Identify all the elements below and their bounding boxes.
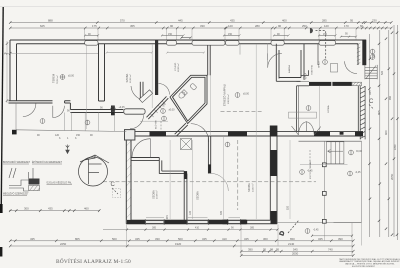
- svg-text:390: 390: [248, 248, 253, 252]
- scan bottom-left blob: [0, 247, 2, 257]
- svg-text:SPÁJZ: SPÁJZ: [317, 61, 320, 68]
- window B slab (x166.5-176.5): [167, 41, 177, 46]
- svg-text:90: 90: [170, 24, 174, 28]
- svg-text:230: 230: [372, 19, 377, 23]
- svg-text:120: 120: [228, 24, 233, 28]
- right wall inner face: [357, 44, 359, 65]
- svg-text:625: 625: [40, 24, 45, 28]
- svg-text:345: 345: [166, 215, 169, 220]
- svg-text:KAMRA: KAMRA: [288, 65, 291, 73]
- terrace stairs (vertical steps): [327, 142, 344, 164]
- room A inner ceiling line: [17, 52, 99, 54]
- porch left vertical: [15, 103, 17, 130]
- bath pentagon inner: [173, 77, 206, 121]
- terrace pillar line: [324, 141, 326, 221]
- svg-text:EGYEZTETÉS SZERINT: EGYEZTETÉS SZERINT: [352, 265, 376, 268]
- bath pentagon outer: [170, 75, 207, 123]
- svg-text:330: 330: [155, 237, 160, 241]
- porch wall down: [69, 103, 71, 110]
- room A bottom wall inner: [9, 102, 53, 104]
- divider wall between room rows: [126, 132, 363, 136]
- svg-text:330: 330: [200, 24, 205, 28]
- scattered small dimension texts: [37, 33, 397, 232]
- szoba level marker: [306, 106, 311, 111]
- room B interior dim line: [106, 52, 153, 54]
- top dim numbers: [40, 19, 377, 29]
- svg-text:385: 385: [152, 227, 157, 230]
- kitchen door arc: [345, 61, 357, 73]
- svg-text:SZOBA: SZOBA: [247, 183, 251, 192]
- svg-text:SZOBA: SZOBA: [327, 105, 330, 113]
- top dimension line 1: [10, 22, 391, 24]
- svg-text:150: 150: [228, 33, 233, 36]
- svg-text:98: 98: [270, 248, 274, 252]
- hatch ticks beside corner band: [357, 43, 361, 65]
- svg-text:2050: 2050: [292, 252, 299, 256]
- spajz partition: [317, 44, 319, 65]
- svg-text:BŐVÍTÉSI ALAPRAJZ M-1:50: BŐVÍTÉSI ALAPRAJZ M-1:50: [56, 257, 131, 265]
- hall left wall piece: [140, 82, 143, 100]
- window C slab (x225.5-239): [226, 41, 240, 46]
- terrace interior thin line: [300, 164, 348, 166]
- legend hatched block: [29, 179, 40, 191]
- partition right room (x270-277): [270, 136, 277, 224]
- svg-text:390: 390: [338, 237, 343, 241]
- diagonal lower wall: [177, 125, 188, 136]
- gable lines: [80, 155, 109, 163]
- svg-text:MEGLÉVŐ SZERKEZET: MEGLÉVŐ SZERKEZET: [3, 193, 29, 196]
- window bottom 3: [228, 219, 241, 225]
- marker C left: [111, 182, 121, 198]
- svg-text:+0,45: +0,45: [119, 106, 126, 109]
- svg-text:150: 150: [76, 134, 81, 137]
- svg-text:95: 95: [276, 248, 280, 252]
- porch dim drop lines: [64, 113, 114, 132]
- room A door arc: [23, 104, 36, 117]
- tiny axis letters: [59, 136, 77, 140]
- tilted door leaf: [139, 90, 152, 103]
- svg-text:SZOBA: SZOBA: [196, 191, 200, 200]
- svg-text:1920: 1920: [175, 242, 182, 246]
- top inner wall line: [17, 43, 359, 45]
- right wall hatched band below kitchen: [360, 86, 365, 139]
- tick marks on top dim lines: [9, 21, 393, 29]
- svg-text:175: 175: [92, 24, 97, 28]
- svg-text:650: 650: [290, 237, 295, 241]
- room B jamb extension line: [151, 44, 153, 108]
- left outer wall: [9, 40, 11, 101]
- svg-text:410: 410: [195, 227, 200, 230]
- dark pier right of window 3: [240, 220, 246, 225]
- svg-text:2140: 2140: [288, 242, 295, 246]
- svg-text:740: 740: [328, 248, 333, 252]
- svg-text:150: 150: [168, 33, 173, 36]
- divider dark segment 1: [150, 131, 167, 136]
- entry door arc: [130, 115, 144, 129]
- svg-text:345: 345: [373, 53, 376, 58]
- hall thin line: [140, 120, 168, 122]
- svg-text:360: 360: [263, 237, 268, 241]
- thin vertical right of szoba: [319, 86, 321, 132]
- entry step slab: [124, 109, 145, 114]
- svg-text:520: 520: [287, 205, 290, 210]
- svg-text:285: 285: [322, 19, 327, 23]
- svg-text:TEREM: TEREM: [52, 74, 56, 83]
- svg-text:BONTANDÓ SZERKEZET: BONTANDÓ SZERKEZET: [3, 161, 31, 164]
- svg-text:ELŐTÉR: ELŐTÉR: [155, 120, 158, 129]
- porch edge line: [16, 130, 126, 132]
- room A bottom wall outer: [9, 100, 53, 102]
- svg-text:C: C: [369, 99, 374, 105]
- scan top edge: [0, 6, 400, 8]
- entry wall lower: [70, 112, 123, 114]
- svg-text:345: 345: [368, 90, 372, 95]
- svg-text:250: 250: [302, 24, 307, 28]
- svg-text:90: 90: [278, 24, 282, 28]
- window bottom 2: [187, 219, 208, 225]
- short dashed vertical below hall markers: [160, 121, 162, 130]
- svg-text:805: 805: [377, 110, 381, 115]
- svg-text:2050: 2050: [390, 173, 394, 180]
- svg-text:455: 455: [130, 24, 135, 28]
- svg-text:345: 345: [220, 210, 223, 215]
- room A second door leaf: [52, 106, 54, 118]
- window jamb extension lines: [85, 29, 356, 40]
- ticks on bottom dim lines: [9, 209, 355, 257]
- partition bottom rooms 1/2 (x184-187): [184, 171, 187, 220]
- thin verticals near living room top: [239, 44, 241, 55]
- window sill lines above bottom windows: [146, 217, 240, 219]
- svg-text:120: 120: [55, 134, 60, 137]
- svg-text:95: 95: [350, 19, 354, 23]
- svg-text:410: 410: [222, 237, 227, 241]
- marker D bottom: [279, 220, 299, 237]
- bottom-left room block left wall: [126, 132, 131, 224]
- door leaf + arc corridor (hinged at 150.5,157.2): [150, 139, 152, 158]
- svg-text:108,00 m²: 108,00 m²: [227, 94, 230, 104]
- scan left edge blob: [0, 204, 3, 213]
- svg-text:520: 520: [381, 70, 384, 75]
- section line D vertical: [237, 140, 239, 210]
- section line C horizontal: [103, 181, 316, 183]
- right szoba left wall: [296, 86, 298, 132]
- stairs top-right: [365, 65, 377, 79]
- svg-text:SZOBA: SZOBA: [152, 190, 156, 199]
- window D slab (x271-284): [271, 41, 284, 46]
- dark segment on partition 2/3: [208, 164, 211, 173]
- porch pillar: [12, 130, 17, 135]
- svg-text:445: 445: [178, 19, 183, 23]
- right margin ticks + numbers: [368, 32, 398, 237]
- svg-text:345: 345: [318, 237, 323, 241]
- svg-text:500: 500: [178, 237, 183, 241]
- svg-text:888: 888: [48, 19, 53, 23]
- svg-text:STUDIÓ: STUDIÓ: [174, 62, 177, 71]
- entry wall upper: [70, 109, 123, 111]
- long window slab (x192-225): [192, 41, 225, 46]
- svg-text:805: 805: [75, 237, 80, 241]
- diagonal hall wall: [148, 98, 168, 119]
- partition A/B right face: [104, 44, 106, 101]
- svg-text:±0,00: ±0,00: [356, 150, 363, 153]
- svg-text:±0,00: ±0,00: [243, 93, 250, 96]
- living room left wall: [208, 45, 211, 75]
- small vertical jog: [158, 158, 160, 174]
- right margin dimension verticals: [370, 25, 398, 240]
- dim line under bottom wall: [103, 229, 278, 231]
- svg-text:95: 95: [263, 248, 267, 252]
- kitchen fixtures: [289, 64, 338, 119]
- svg-text:170: 170: [344, 24, 349, 28]
- svg-text:345: 345: [135, 237, 140, 241]
- svg-text:435: 435: [48, 207, 53, 211]
- window dim ticks above windows: [84, 34, 337, 36]
- bottom wall: [126, 220, 277, 224]
- marker D top: [310, 28, 325, 58]
- entry dark pier on wall: [111, 106, 115, 116]
- kamra door arc: [268, 53, 282, 67]
- left outside dim vertical: [6, 41, 8, 103]
- short dim line right: [312, 235, 352, 237]
- terrace bottom tick end: [334, 222, 362, 224]
- interior wall: corridor top (bottom-left block): [131, 158, 184, 174]
- svg-text:-0,45: -0,45: [355, 171, 361, 174]
- bottom dimension line 1: [10, 240, 353, 242]
- dark pier left of window 3: [223, 220, 229, 225]
- dark junction at divider: [270, 126, 278, 137]
- svg-text:78,56 m²: 78,56 m²: [56, 75, 59, 84]
- partition bottom tie: [99, 100, 105, 102]
- window room A top (x85-106): [85, 41, 98, 46]
- divider dark segment 2: [228, 131, 247, 136]
- top-right dark hatched corner wall: [362, 40, 366, 65]
- kitchen bottom dark wall band: [309, 82, 331, 86]
- bottom dimension line 4: [241, 255, 353, 257]
- svg-text:18,68 m²: 18,68 m²: [177, 63, 180, 72]
- dark segment on partition 1/2: [184, 171, 187, 179]
- partition A/B left face: [98, 44, 100, 101]
- svg-text:280: 280: [255, 24, 260, 28]
- window bottom 1: [145, 219, 164, 225]
- north arrow: [66, 145, 70, 154]
- corridor lower wall: [162, 170, 184, 172]
- wall room B right (dark double): [155, 40, 158, 95]
- svg-text:500: 500: [112, 237, 117, 241]
- french doors fan: [292, 122, 321, 135]
- kitchen level marker: [323, 60, 328, 65]
- rungs on hall diagonal: [150, 101, 165, 117]
- hall door arc left: [131, 86, 144, 100]
- top dimension line 2: [10, 27, 391, 29]
- partition rooms 2/3 (x208-211): [208, 136, 210, 173]
- terrace top wall thin: [299, 140, 362, 142]
- bottom dimension line left: [9, 210, 100, 212]
- svg-text:10,08 m²: 10,08 m²: [156, 190, 159, 199]
- legend drawing: [9, 168, 33, 191]
- svg-text:345: 345: [202, 237, 207, 241]
- svg-text:435: 435: [30, 237, 35, 241]
- window E slab (x319-335.5): [319, 41, 336, 46]
- bottom dimension line 2: [10, 245, 353, 247]
- svg-text:460: 460: [84, 207, 89, 211]
- divider dark segment 4: [355, 131, 363, 136]
- door arc bottom-right of pentagon: [191, 124, 209, 142]
- svg-text:345: 345: [244, 237, 249, 241]
- svg-text:960: 960: [389, 95, 392, 100]
- short dashed vertical in terrace: [309, 150, 311, 164]
- row 1: [9, 239, 12, 242]
- hall door arc (from dark wall B): [159, 84, 170, 95]
- svg-text:300: 300: [24, 207, 29, 211]
- svg-text:±0,00: ±0,00: [169, 109, 176, 112]
- marker C right: [369, 99, 374, 110]
- svg-text:14,50 m²: 14,50 m²: [252, 183, 255, 192]
- pillar squares: [322, 163, 326, 167]
- kamra walls: [276, 44, 304, 82]
- svg-text:ÉPÍTENDŐ FALSZERKEZET: ÉPÍTENDŐ FALSZERKEZET: [32, 161, 63, 164]
- bottom-right text block: [339, 258, 400, 268]
- svg-text:ÚJOLAG KÉSZÜLŐ FAL: ÚJOLAG KÉSZÜLŐ FAL: [47, 182, 73, 185]
- svg-text:C: C: [111, 182, 116, 188]
- svg-text:120: 120: [189, 210, 192, 215]
- row 2: [9, 245, 12, 248]
- svg-text:570: 570: [120, 19, 125, 23]
- svg-text:16,96 m²: 16,96 m²: [129, 74, 132, 83]
- interior thin dim verticals bottom rooms: [170, 44, 290, 219]
- bath fixtures: sink: [190, 83, 197, 90]
- dark segment on right partition: [270, 150, 277, 176]
- top-right window dim ticks: [340, 36, 357, 38]
- svg-text:-0,45: -0,45: [313, 229, 319, 232]
- pier ticks between slabs: [181, 37, 192, 39]
- svg-text:2250: 2250: [394, 144, 397, 150]
- row 3: [240, 250, 243, 253]
- svg-text:120: 120: [324, 24, 329, 28]
- bottom wall dark segments: [127, 220, 146, 224]
- svg-text:435: 435: [230, 19, 235, 23]
- studio interior dim line: [166, 52, 205, 54]
- svg-text:150: 150: [323, 33, 328, 36]
- scan left edge line: [1, 7, 3, 212]
- kamra bottom-right jog: [301, 70, 309, 75]
- right szoba top wall thin extension: [297, 85, 309, 87]
- bottom dim numbers: [24, 207, 343, 256]
- top outer wall: [10, 39, 366, 41]
- bottom dimension line 3: [241, 250, 353, 252]
- svg-text:60: 60: [360, 24, 364, 28]
- row 4: [240, 254, 243, 257]
- room A second door arc: [53, 106, 65, 118]
- small dark tick on divider: [340, 132, 344, 135]
- dashed in living room: [221, 110, 262, 112]
- step corner at porch: [65, 101, 71, 103]
- interior sketch: [88, 159, 90, 184]
- svg-text:2250: 2250: [60, 242, 67, 246]
- terrace bottom edge: [277, 222, 361, 224]
- svg-text:±0,00: ±0,00: [68, 75, 75, 78]
- bath fixtures: toilet: [178, 89, 188, 99]
- svg-text:SZOBA: SZOBA: [125, 73, 129, 82]
- svg-text:960: 960: [384, 130, 388, 135]
- svg-text:KONYHA: KONYHA: [310, 65, 313, 75]
- divider dark segment 3: [314, 131, 330, 136]
- svg-text:400: 400: [282, 19, 287, 23]
- shower square near divider: [181, 139, 192, 150]
- left wall hatch (bottom block): [126, 141, 131, 218]
- terrace right edge: [361, 141, 363, 222]
- svg-text:-0,45: -0,45: [307, 170, 313, 173]
- door arc partition 2/3: [211, 173, 229, 191]
- svg-text:385: 385: [250, 227, 255, 230]
- left inner wall: [16, 44, 18, 101]
- right wall inner face lower: [357, 86, 359, 136]
- entry pillar: [125, 130, 135, 140]
- extension drops right/bottom: [127, 223, 362, 255]
- dim line through room A (thin vertical): [85, 44, 87, 129]
